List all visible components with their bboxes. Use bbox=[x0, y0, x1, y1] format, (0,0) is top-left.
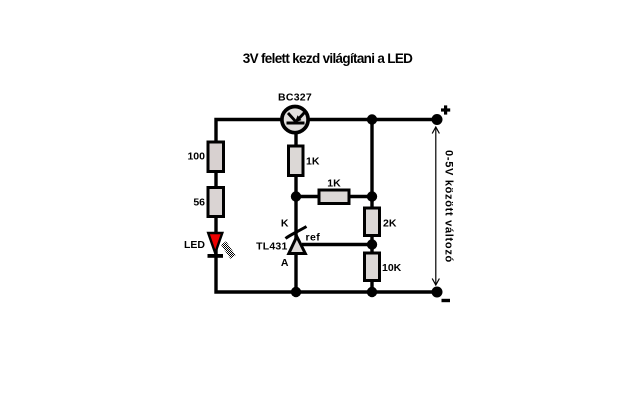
svg-text:BC327: BC327 bbox=[278, 92, 312, 104]
junction node bottom middle bbox=[291, 287, 301, 297]
terminal minus node bbox=[432, 287, 443, 298]
svg-text:2K: 2K bbox=[383, 218, 397, 230]
wire outer loop bbox=[216, 120, 437, 293]
wire middle rail (transistor base to TL431) bbox=[294, 131, 297, 292]
resistor R 1K vertical bbox=[289, 146, 304, 176]
svg-text:ref: ref bbox=[306, 232, 321, 244]
junction node bottom right rail bbox=[367, 287, 377, 297]
resistor R 10K bbox=[365, 253, 380, 281]
svg-text:56: 56 bbox=[193, 197, 205, 209]
terminal plus node bbox=[432, 114, 443, 125]
svg-text:LED: LED bbox=[184, 239, 205, 251]
resistor R 56 bbox=[208, 188, 224, 217]
transistor Q1 BC327 bbox=[282, 107, 308, 133]
svg-text:3V felett kezd világítani a LE: 3V felett kezd világítani a LED bbox=[243, 51, 413, 66]
junction node divider ref bbox=[367, 239, 377, 249]
svg-text:100: 100 bbox=[187, 151, 205, 163]
wire ref branch bbox=[302, 243, 372, 246]
shunt regulator U1 TL431 bbox=[286, 227, 307, 254]
svg-text:10K: 10K bbox=[382, 262, 402, 274]
LED D1 bbox=[208, 233, 234, 258]
resistor R 100 bbox=[208, 142, 224, 172]
svg-text:1K: 1K bbox=[327, 178, 341, 190]
svg-text:0-5V között változó: 0-5V között változó bbox=[443, 150, 455, 263]
junction node right rail feedback bbox=[367, 191, 377, 201]
resistor R 2K bbox=[365, 208, 380, 236]
resistor R 1K horizontal bbox=[319, 190, 349, 204]
label minus bbox=[442, 299, 451, 302]
wire 1K feedback branch bbox=[296, 195, 372, 198]
range arrow bbox=[432, 127, 439, 285]
label plus bbox=[441, 105, 450, 114]
wire right rail bbox=[370, 120, 373, 293]
junction node base/feedback bbox=[291, 191, 301, 201]
svg-text:TL431: TL431 bbox=[256, 241, 287, 253]
junction node top right rail bbox=[367, 114, 377, 124]
svg-text:K: K bbox=[281, 218, 289, 230]
svg-text:A: A bbox=[281, 257, 289, 269]
svg-text:1K: 1K bbox=[306, 156, 320, 168]
